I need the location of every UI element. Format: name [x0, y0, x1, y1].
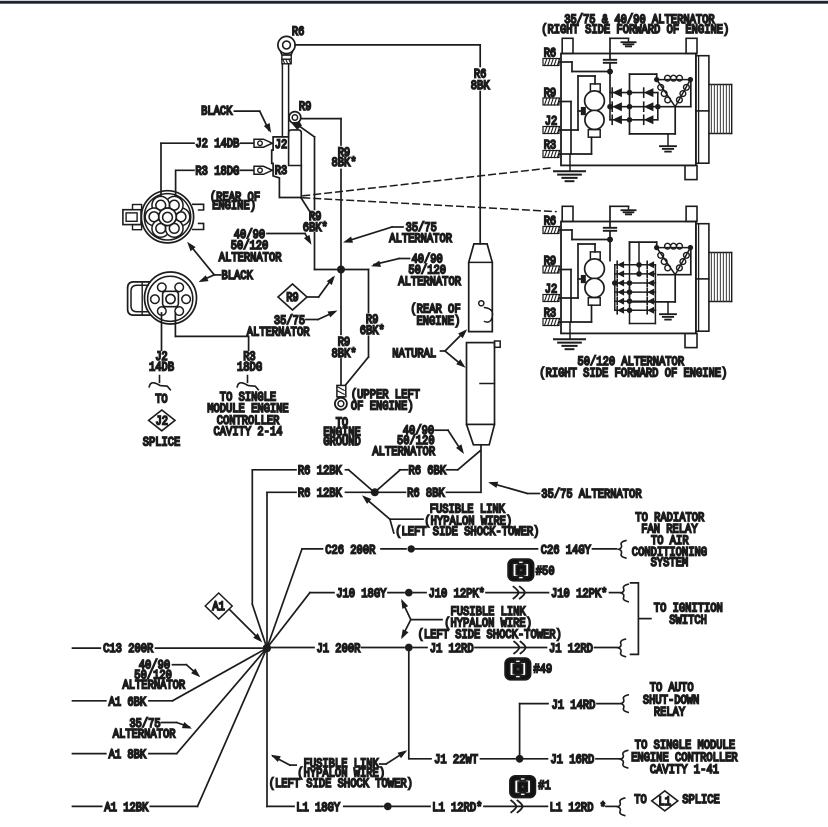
wire row R6 12BK (upper): [252, 469, 296, 471]
svg-text:J2 14DB: J2 14DB: [195, 137, 239, 151]
svg-text:ALTERNATOR: ALTERNATOR: [247, 325, 310, 339]
splice symbol L1: [652, 791, 678, 811]
svg-text:ENGINE): ENGINE): [417, 315, 461, 329]
row L1 18GY / L1 12RD: [267, 805, 294, 807]
svg-text:C26 200R: C26 200R: [325, 543, 376, 557]
bridge output tail: [629, 120, 631, 134]
wire R6 8BK vertical: [479, 45, 481, 67]
svg-text:GROUND: GROUND: [323, 435, 361, 449]
svg-text:35/75 ALTERNATOR: 35/75 ALTERNATOR: [541, 488, 642, 502]
svg-text:6BK*: 6BK*: [360, 324, 385, 338]
node (R6 bus): [607, 69, 613, 75]
capacitor C: [609, 206, 611, 227]
svg-text:A1 12BK: A1 12BK: [104, 801, 148, 815]
svg-text:14DB: 14DB: [149, 361, 175, 375]
svg-text:A1 8BK: A1 8BK: [109, 748, 147, 762]
svg-text:ALTERNATOR: ALTERNATOR: [113, 728, 176, 742]
splice node A1: [263, 644, 271, 652]
terminal half R3: [237, 376, 258, 390]
svg-text:C13 200R: C13 200R: [103, 642, 154, 656]
svg-text:R6: R6: [292, 25, 305, 39]
wire R6 to right: [295, 44, 480, 46]
svg-text:SYSTEM: SYSTEM: [651, 556, 689, 570]
ground (mid): [660, 145, 676, 147]
ground lead (bottom left): [569, 154, 571, 171]
svg-text:SPLICE: SPLICE: [682, 793, 720, 807]
regulator wiring: [594, 244, 596, 252]
ring terminal R9: [289, 112, 301, 124]
svg-text:8BK*: 8BK*: [332, 156, 357, 170]
svg-text:BLACK: BLACK: [222, 269, 254, 283]
svg-text:RELAY: RELAY: [654, 706, 686, 720]
connector 7-way brackets: [193, 204, 204, 210]
svg-text:J10 12PK*: J10 12PK*: [551, 587, 607, 601]
row R3 18DG: [176, 169, 194, 171]
wire R6 internal: [561, 61, 572, 63]
svg-text:(RIGHT SIDE FORWARD OF ENGINE): (RIGHT SIDE FORWARD OF ENGINE): [541, 23, 729, 37]
ground (top): [628, 38, 630, 42]
svg-text:J10 18GY: J10 18GY: [336, 587, 387, 601]
svg-text:R3 18DG: R3 18DG: [195, 164, 239, 178]
svg-text:(RIGHT SIDE FORWARD OF ENGINE): (RIGHT SIDE FORWARD OF ENGINE): [539, 367, 727, 381]
node (R6 bus): [607, 237, 613, 243]
svg-text:#50: #50: [536, 564, 555, 578]
capacitor C: [609, 38, 611, 59]
connector 6-way: [145, 272, 197, 324]
svg-text:R3: R3: [275, 164, 288, 178]
wire J1 dot to 22WT row: [408, 652, 410, 759]
ring terminal engine ground: [337, 385, 346, 396]
svg-text:ALTERNATOR: ALTERNATOR: [398, 275, 461, 289]
svg-text:J1 12RD: J1 12RD: [549, 642, 593, 656]
svg-text:ALTERNATOR: ALTERNATOR: [219, 251, 282, 265]
svg-text:R6 12BK: R6 12BK: [298, 487, 342, 501]
svg-text:TO: TO: [155, 393, 168, 407]
bridge output tail: [629, 288, 631, 302]
svg-text:ALTERNATOR: ALTERNATOR: [123, 679, 186, 693]
regulator wiring: [594, 76, 596, 84]
svg-text:#1: #1: [538, 779, 551, 793]
svg-text:8BK: 8BK: [471, 79, 490, 93]
row J1 200R / J1 12RD: [272, 647, 315, 649]
rear housing and pulley: [696, 224, 709, 332]
rectifier bridge (35/75 & 40/90): [610, 92, 658, 94]
node R6: [371, 488, 379, 496]
svg-text:J10 12PK*: J10 12PK*: [429, 587, 485, 601]
connector 6-way center: [163, 291, 179, 306]
wire J2 internal: [561, 129, 578, 131]
row A1 6BK: [73, 700, 106, 702]
connector 6-way handle: [128, 282, 150, 315]
svg-text:ALTERNATOR: ALTERNATOR: [389, 232, 452, 246]
connector block (rear of engine): [272, 137, 302, 198]
alternator housing: [561, 54, 696, 166]
top border line: [0, 1, 828, 4]
bridge 50/120 bottom tail: [629, 310, 631, 323]
svg-text:J2: J2: [275, 138, 288, 152]
svg-text:R6 6BK: R6 6BK: [409, 464, 447, 478]
voltage regulator: [590, 252, 600, 260]
wire J2 internal: [561, 297, 578, 299]
wire R9 6BK* (left): [298, 125, 314, 137]
wire R6 8BK row: [379, 491, 406, 493]
svg-text:SPLICE: SPLICE: [143, 436, 181, 450]
row A1 12BK: [73, 805, 102, 807]
svg-text:(LEFT SIDE SHOCK-TOWER): (LEFT SIDE SHOCK-TOWER): [395, 525, 539, 539]
wire row R6 12BK (lower): [267, 491, 296, 493]
voltage regulator: [590, 84, 600, 92]
ring terminal R6: [278, 36, 295, 53]
stator delta winding: [657, 80, 691, 107]
svg-text:#49: #49: [533, 663, 552, 677]
wire female connector down: [480, 445, 482, 493]
svg-text:6BK*: 6BK*: [303, 221, 328, 235]
svg-text:BLACK: BLACK: [201, 105, 233, 119]
row J1 14RD: [519, 704, 521, 755]
row J10: [267, 593, 310, 649]
alternator housing: [561, 222, 696, 334]
svg-text:CAVITY 1-41: CAVITY 1-41: [650, 763, 719, 777]
row C13 200R (left): [73, 647, 101, 649]
svg-text:OF ENGINE): OF ENGINE): [351, 400, 414, 414]
ground lead (bottom left): [569, 322, 571, 339]
svg-text:CAVITY 2-14: CAVITY 2-14: [214, 425, 283, 439]
ground (top): [628, 206, 630, 210]
svg-text:L1: L1: [659, 795, 672, 809]
dashed leader lines to alternators: [303, 168, 552, 196]
svg-text:A1: A1: [212, 600, 225, 614]
bracket ignition switch: [631, 583, 639, 655]
svg-text:L1 18GY: L1 18GY: [296, 801, 340, 815]
svg-text:R6 8BK: R6 8BK: [407, 487, 445, 501]
inline connector #1: [510, 776, 536, 798]
wire bus (left): [266, 492, 268, 806]
wire R6 down (insulated): [281, 64, 283, 137]
wire R9/R3 internal: [561, 101, 571, 103]
node R9 junction: [337, 266, 345, 274]
svg-text:J1 14RD: J1 14RD: [552, 699, 596, 713]
delta connections: [656, 74, 658, 80]
wire from block bottom: [301, 198, 314, 219]
rectifier bridge (50/120): [615, 264, 656, 266]
terminal bullet R3: [254, 166, 272, 174]
svg-text:C26 14GY: C26 14GY: [541, 543, 592, 557]
connector 7-way latch: [123, 210, 141, 225]
svg-text:ENGINE): ENGINE): [212, 199, 256, 213]
splice symbol R9: [278, 284, 307, 310]
svg-text:R9: R9: [286, 291, 299, 305]
delta neutral to ground: [674, 107, 676, 134]
wire R9/R3 internal: [561, 269, 571, 271]
svg-text:J1 200R: J1 200R: [317, 642, 361, 656]
delta connections: [656, 242, 658, 248]
wires from 6-way down: [161, 313, 163, 350]
wire node to corner: [345, 269, 369, 271]
stator delta winding: [657, 248, 691, 275]
svg-text:R6 12BK: R6 12BK: [298, 464, 342, 478]
splice symbol A1: [205, 593, 232, 619]
inline connector #49: [505, 658, 530, 680]
connector natural (male): [469, 244, 493, 332]
svg-text:SWITCH: SWITCH: [669, 613, 707, 627]
svg-text:J1 16RD: J1 16RD: [550, 753, 594, 767]
connector natural (female): [495, 341, 501, 347]
svg-text:L1 12RD *: L1 12RD *: [550, 801, 606, 815]
svg-text:J2: J2: [156, 415, 169, 429]
R9 wire sleeve: [289, 130, 302, 166]
svg-text:18DG: 18DG: [237, 361, 262, 375]
row J2 14DB: [161, 142, 194, 144]
terminal bullet J2: [254, 139, 272, 147]
svg-text:NATURAL: NATURAL: [392, 347, 436, 361]
svg-text:ALTERNATOR: ALTERNATOR: [372, 445, 435, 459]
alternator 50/120 (right): [543, 206, 732, 349]
svg-text:J1 12RD: J1 12RD: [430, 642, 474, 656]
ground (mid): [660, 313, 676, 315]
svg-text:A1 6BK: A1 6BK: [109, 695, 147, 709]
row C26 200R: [267, 549, 302, 648]
wire to ring (upper left of engine): [345, 357, 368, 385]
rear housing and pulley: [696, 56, 709, 164]
terminal half J2: [149, 376, 170, 390]
svg-text:TO: TO: [634, 793, 647, 807]
connector 7-way (rear of engine): [141, 191, 193, 243]
alternator 35/75 & 40/90 (top right): [543, 38, 732, 181]
svg-text:(LEFT SIDE SHOCK-TOWER): (LEFT SIDE SHOCK-TOWER): [418, 628, 562, 642]
delta neutral to ground: [674, 275, 676, 302]
inline connector #50: [508, 559, 533, 581]
svg-text:R9: R9: [299, 100, 312, 114]
svg-text:(LEFT SIDE SHOCK TOWER): (LEFT SIDE SHOCK TOWER): [269, 777, 413, 791]
wire J2 to connector: [160, 143, 162, 203]
row A1 8BK: [73, 753, 106, 755]
wire R6 6BK diagonal: [378, 471, 400, 490]
wire R3 to connector: [175, 170, 177, 203]
svg-text:J1 22WT: J1 22WT: [434, 753, 478, 767]
svg-text:8BK*: 8BK*: [332, 347, 357, 361]
splice symbol J2: [149, 410, 175, 431]
wire feeder upper row: [251, 470, 253, 605]
wire R9 8BK* (top): [301, 118, 341, 120]
svg-text:L1 12RD*: L1 12RD*: [432, 801, 482, 815]
wire R6 internal: [561, 229, 572, 231]
